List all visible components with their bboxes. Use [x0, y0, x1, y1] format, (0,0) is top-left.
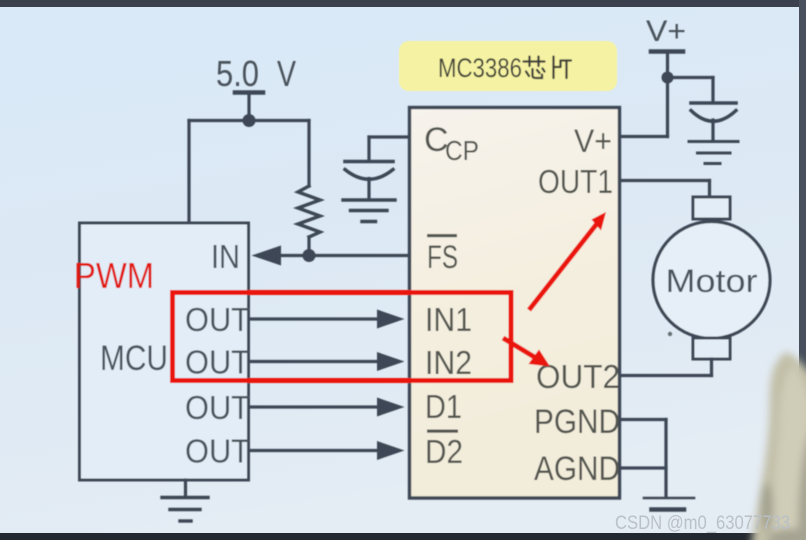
svg-text:Motor: Motor: [666, 263, 758, 299]
svg-text:V+: V+: [646, 15, 686, 48]
svg-text:CP: CP: [445, 135, 479, 166]
svg-text:AGND: AGND: [534, 450, 620, 488]
svg-text:5.0: 5.0: [216, 53, 259, 94]
svg-text:V: V: [277, 53, 296, 94]
svg-text:CSDN @m0_63077733: CSDN @m0_63077733: [615, 512, 790, 534]
svg-text:IN2: IN2: [425, 344, 472, 381]
svg-text:MCU: MCU: [100, 339, 168, 378]
svg-text:V+: V+: [574, 123, 612, 159]
svg-text:OUT: OUT: [185, 344, 250, 381]
svg-text:PWM: PWM: [74, 255, 154, 296]
svg-text:IN: IN: [211, 238, 240, 275]
svg-text:OUT1: OUT1: [538, 163, 613, 200]
svg-text:FS: FS: [427, 239, 458, 275]
svg-text:D2: D2: [425, 433, 463, 470]
svg-text:IN1: IN1: [425, 301, 472, 338]
svg-text:PGND: PGND: [534, 403, 620, 441]
svg-text:MC3386: MC3386: [438, 53, 522, 83]
svg-text:OUT: OUT: [185, 433, 250, 470]
svg-text:OUT: OUT: [185, 389, 250, 426]
svg-text:OUT2: OUT2: [536, 358, 620, 395]
svg-text:D1: D1: [425, 388, 462, 425]
svg-text:OUT: OUT: [185, 301, 250, 338]
